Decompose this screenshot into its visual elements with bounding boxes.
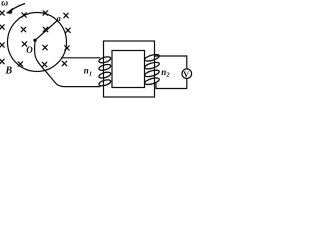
svg-text:ω: ω xyxy=(1,0,8,9)
svg-text:V: V xyxy=(183,70,189,79)
svg-text:a: a xyxy=(57,14,61,23)
svg-text:O: O xyxy=(26,45,33,55)
svg-text:B: B xyxy=(5,66,13,77)
